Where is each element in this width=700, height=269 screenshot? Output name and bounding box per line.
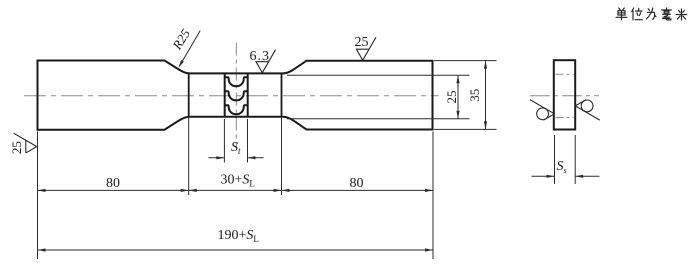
dimension 80 left xyxy=(38,189,189,191)
dimension 25 vertical xyxy=(457,75,459,119)
section inner dash bottom xyxy=(556,117,574,119)
specimen outline xyxy=(38,61,433,130)
glyph 位 xyxy=(632,8,643,20)
weld edge line right xyxy=(247,73,249,116)
surface symbol 6.3 on gauge xyxy=(256,50,276,73)
gauge boundary line right xyxy=(281,73,283,116)
svg-text:25: 25 xyxy=(355,35,369,50)
extension line gauge left xyxy=(188,118,190,195)
surface symbol 25 on right shoulder xyxy=(356,37,376,60)
dimension 35 vertical xyxy=(485,61,487,130)
weld scallop 3 xyxy=(225,105,248,114)
weld vertical centerline xyxy=(235,43,237,148)
gauge boundary line left xyxy=(188,73,190,116)
extension line weld right xyxy=(247,119,249,163)
units note: 单位为毫米 drawn as vector strokes xyxy=(616,8,687,20)
glyph 米 xyxy=(676,9,687,20)
extension line gauge top right xyxy=(287,74,470,76)
dimension Ss xyxy=(532,175,555,177)
svg-text:80: 80 xyxy=(106,176,120,191)
dimension 80 right xyxy=(282,189,434,191)
weld scallop 1 xyxy=(225,77,248,86)
dimension 30+SL xyxy=(189,189,282,191)
glyph 为 xyxy=(646,8,656,20)
svg-text:35: 35 xyxy=(467,89,482,102)
svg-text:80: 80 xyxy=(350,176,364,191)
surface symbol no-removal right xyxy=(575,100,600,121)
dimension 190+SL xyxy=(38,249,434,251)
section inner dash top xyxy=(556,73,574,75)
extension line left end xyxy=(37,132,39,260)
svg-text:25: 25 xyxy=(444,91,459,104)
extension line weld left xyxy=(223,119,225,163)
R25 leader arrow xyxy=(180,31,201,66)
extension line top 35 xyxy=(434,60,497,62)
extension line bottom 35 xyxy=(434,128,497,130)
glyph 单 xyxy=(616,8,627,20)
svg-text:6.3: 6.3 xyxy=(250,49,271,64)
extension line gauge bottom right xyxy=(287,118,470,120)
dimension St xyxy=(208,157,224,159)
surface symbol 25 left rotated xyxy=(14,133,37,153)
surface symbol no-removal left xyxy=(530,100,555,121)
weld edge line left xyxy=(224,73,226,116)
svg-text:25: 25 xyxy=(9,141,24,154)
extension line right end xyxy=(432,132,434,260)
main horizontal centerline xyxy=(24,95,439,97)
section extension line left xyxy=(554,135,556,184)
weld scallop 2 xyxy=(225,91,248,100)
extension line gauge right xyxy=(281,118,283,195)
glyph 毫 xyxy=(662,8,672,20)
section view centerline xyxy=(530,95,599,97)
section rectangle xyxy=(554,60,575,129)
svg-text:190+SL: 190+SL xyxy=(218,228,259,244)
section extension line right xyxy=(574,135,576,184)
